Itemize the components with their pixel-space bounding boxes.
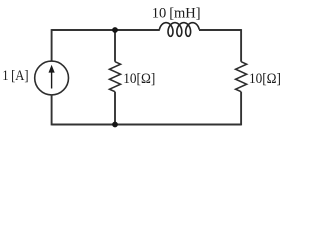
current source I1 [35,61,69,95]
wire left branch upper [51,29,53,61]
wire middle branch lower [114,92,116,125]
inductor L1 [159,23,199,37]
wire right branch lower [240,92,242,126]
svg-text:10[Ω]: 10[Ω] [123,71,155,87]
wire middle branch upper [114,30,116,62]
wire left branch lower [51,95,53,126]
svg-text:1 [A]: 1 [A] [2,68,28,84]
junction node top [112,27,118,33]
wire top-left segment [52,29,160,31]
svg-text:10 [mH]: 10 [mH] [152,6,201,22]
svg-text:10[Ω]: 10[Ω] [249,71,281,87]
wire right branch upper [240,29,242,62]
wire bottom [52,124,242,126]
resistor R1 [110,62,121,92]
resistor R2 [236,62,247,92]
junction node bottom [112,122,118,128]
wire top-right segment [199,29,241,31]
